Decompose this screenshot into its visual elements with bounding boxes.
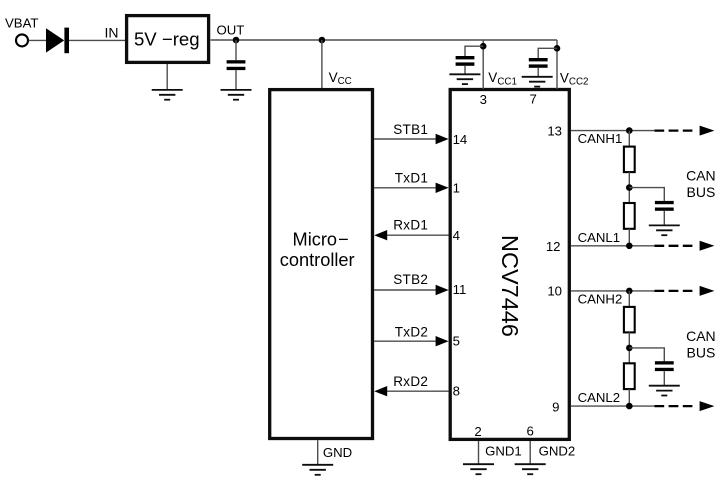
wire RxD2 xyxy=(386,390,449,392)
svg-text:11: 11 xyxy=(453,282,467,297)
resistor R3 xyxy=(624,307,635,333)
wire CANH1 bus dashed xyxy=(654,129,692,131)
wire R2 to CANL1 xyxy=(628,229,630,246)
junction node CANH1 xyxy=(626,127,633,134)
svg-text:9: 9 xyxy=(552,400,559,415)
label CAN BUS 2 xyxy=(686,328,716,360)
svg-text:CANL1: CANL1 xyxy=(578,230,621,245)
wire midpoint 2 to capacitor C5 xyxy=(629,348,664,361)
svg-text:RxD2: RxD2 xyxy=(393,374,428,389)
svg-text:BUS: BUS xyxy=(687,184,716,200)
svg-text:VBAT: VBAT xyxy=(5,15,38,30)
arrow CANL1 bus xyxy=(700,241,715,251)
arrow RxD1 into microcontroller xyxy=(374,230,387,240)
capacitor C2 xyxy=(456,56,475,66)
svg-text:5: 5 xyxy=(453,334,460,349)
capacitor C4 xyxy=(655,201,674,211)
svg-text:CANH1: CANH1 xyxy=(578,131,623,146)
svg-text:controller: controller xyxy=(280,250,355,270)
capacitor C3 xyxy=(529,58,548,68)
wire microcontroller ground stem xyxy=(317,440,319,465)
wire capacitor C1 to ground xyxy=(235,70,237,90)
wire capacitor C2 to VCC1 junction xyxy=(465,46,483,56)
ground under C4 xyxy=(649,225,680,235)
transceiver U1 NCV7446 box xyxy=(450,90,569,440)
wire STB1 xyxy=(374,138,437,140)
junction node termination midpoint 1 xyxy=(626,184,633,191)
label CAN BUS 1 xyxy=(686,168,716,200)
wire VCC2 pin 7 vertical xyxy=(556,40,558,89)
svg-text:TxD1: TxD1 xyxy=(395,170,428,185)
ground under regulator xyxy=(152,90,183,100)
ground under microcontroller xyxy=(302,465,333,475)
wire CANH1 from pin 13 xyxy=(571,130,654,132)
svg-text:TxD2: TxD2 xyxy=(395,325,428,340)
svg-text:CAN: CAN xyxy=(686,168,716,184)
wire RxD1 xyxy=(386,234,449,236)
svg-text:7: 7 xyxy=(530,92,537,107)
ground under C5 xyxy=(649,386,680,396)
arrow CANH1 bus xyxy=(700,126,715,136)
wire R4 to CANL2 xyxy=(628,389,630,406)
resistor R2 xyxy=(624,203,635,229)
wire CANL2 from pin 9 xyxy=(571,405,654,407)
wire CANL2 bus dashed xyxy=(654,405,692,407)
wire CANL1 from pin 12 xyxy=(571,245,654,247)
junction node CANH2 xyxy=(626,288,633,295)
svg-text:CANL2: CANL2 xyxy=(578,390,621,405)
arrow STB2 into pin 11 xyxy=(436,285,449,295)
ground under pin 6 xyxy=(515,464,546,474)
arrow CANH2 bus xyxy=(700,286,715,296)
wire capacitor C4 to ground xyxy=(663,211,665,226)
svg-text:12: 12 xyxy=(546,239,561,254)
wire CANH1 junction to resistor R1 xyxy=(628,131,630,147)
capacitor C1 xyxy=(227,60,246,70)
wire CANH2 bus dashed xyxy=(654,290,692,292)
wire capacitor C3 to ground xyxy=(537,68,539,77)
wire capacitor C2 to ground xyxy=(464,66,466,75)
wire regulator ground stem xyxy=(166,64,168,90)
wire TxD1 xyxy=(374,187,437,189)
svg-text:5V −reg: 5V −reg xyxy=(134,29,200,50)
svg-text:OUT: OUT xyxy=(217,22,245,37)
wire OUT junction down to capacitor C1 xyxy=(235,40,237,60)
ground under C1 xyxy=(221,90,252,100)
junction node CANL1 xyxy=(626,243,633,250)
ground under C3 xyxy=(522,77,553,87)
junction node VCC2 xyxy=(554,45,561,52)
wire R1 to midpoint xyxy=(628,172,630,203)
junction node VCC1 xyxy=(480,43,487,50)
wire GND1 pin 2 stem xyxy=(478,441,480,464)
svg-text:13: 13 xyxy=(547,123,562,138)
wire VCC1 pin 3 vertical xyxy=(482,40,484,89)
wire VBAT to diode xyxy=(29,39,46,41)
svg-text:8: 8 xyxy=(453,384,460,399)
svg-text:14: 14 xyxy=(453,132,468,147)
svg-text:1: 1 xyxy=(453,181,460,196)
wire capacitor C3 to VCC2 junction xyxy=(538,48,557,58)
svg-text:GND: GND xyxy=(323,445,352,460)
junction node at OUT xyxy=(233,37,240,44)
wire TxD2 xyxy=(374,340,437,342)
capacitor C5 xyxy=(655,361,674,371)
ground under C2 xyxy=(449,74,480,84)
wire CANL1 bus dashed xyxy=(654,245,692,247)
wire CANH2 from pin 10 xyxy=(571,290,654,292)
svg-text:4: 4 xyxy=(453,228,460,243)
wire R3 to midpoint xyxy=(628,332,630,363)
regulator U2 5V-reg box xyxy=(127,16,209,63)
svg-text:CAN: CAN xyxy=(686,328,716,344)
terminal VBAT xyxy=(16,34,28,46)
arrow TxD2 into pin 5 xyxy=(436,336,449,346)
arrow RxD2 into microcontroller xyxy=(374,386,387,396)
svg-text:BUS: BUS xyxy=(687,345,716,361)
junction node at Vcc branch xyxy=(319,37,326,44)
svg-text:CANH2: CANH2 xyxy=(578,291,623,306)
diode D1 xyxy=(46,28,69,54)
arrow TxD1 into pin 1 xyxy=(436,183,449,193)
wire Vcc branch down to microcontroller xyxy=(321,40,323,89)
wire diode to regulator IN xyxy=(69,39,125,41)
svg-text:RxD1: RxD1 xyxy=(393,217,428,232)
svg-text:3: 3 xyxy=(480,92,487,107)
wire midpoint 1 to capacitor C4 xyxy=(629,188,664,201)
microcontroller label xyxy=(280,230,355,270)
wire CANH2 junction to resistor R3 xyxy=(628,291,630,307)
svg-text:IN: IN xyxy=(105,24,119,40)
svg-text:Micro−: Micro− xyxy=(293,230,349,250)
microcontroller U3 box xyxy=(270,90,373,439)
junction node CANL2 xyxy=(626,403,633,410)
svg-text:STB2: STB2 xyxy=(393,272,428,287)
ground under pin 2 xyxy=(463,464,494,474)
svg-text:NCV7446: NCV7446 xyxy=(497,235,523,337)
svg-text:2: 2 xyxy=(474,424,481,439)
svg-text:10: 10 xyxy=(547,283,562,298)
wire main 5V rail xyxy=(211,39,557,41)
svg-text:STB1: STB1 xyxy=(393,122,428,137)
resistor R4 xyxy=(624,363,635,389)
svg-text:GND1: GND1 xyxy=(485,444,522,459)
arrow STB1 into pin 14 xyxy=(436,134,449,144)
resistor R1 xyxy=(624,147,635,173)
svg-text:GND2: GND2 xyxy=(539,444,576,459)
arrow CANL2 bus xyxy=(700,401,715,411)
wire capacitor C5 to ground xyxy=(663,371,665,386)
svg-text:6: 6 xyxy=(527,423,534,438)
junction node termination midpoint 2 xyxy=(626,345,633,352)
wire STB2 xyxy=(374,289,437,291)
wire GND2 pin 6 stem xyxy=(529,441,531,464)
